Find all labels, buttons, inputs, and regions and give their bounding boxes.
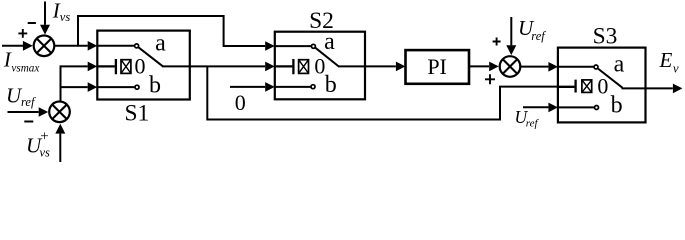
svg-text:S2: S2	[309, 8, 334, 34]
wire sum3 output to S3 input a	[520, 62, 558, 72]
S2 internal contact a line and dot	[275, 44, 316, 48]
label 0 constant	[235, 90, 246, 115]
S3 internal contact b line and dot	[558, 106, 599, 110]
summing junction U2 (U_vs+ - U_ref)	[49, 102, 70, 123]
svg-text:vs: vs	[40, 145, 51, 159]
label U_ref at sum2	[6, 83, 36, 108]
S2 crossed-square symbol	[299, 60, 309, 74]
S3 block label	[593, 24, 618, 50]
S1 internal contact a line and dot	[97, 44, 138, 48]
plus sign for PI input at sum3	[485, 74, 495, 84]
wire E_v output	[646, 84, 683, 94]
switch block S3 box	[558, 48, 646, 123]
S3 middle input line with blocking bar	[558, 80, 576, 93]
svg-text:0: 0	[135, 53, 146, 78]
plus sign for I_vsmax input	[18, 29, 27, 38]
svg-text:0: 0	[235, 90, 246, 115]
wire branch from riser to S1 input b	[61, 82, 98, 92]
svg-text:PI: PI	[427, 54, 447, 79]
svg-text:v: v	[673, 61, 679, 75]
S3 label a	[614, 51, 625, 77]
S3 label b	[611, 92, 623, 118]
S1 crossed-square symbol	[121, 60, 131, 74]
S3 crossed-square symbol	[582, 80, 592, 93]
S2 label a	[324, 29, 335, 55]
svg-text:b: b	[611, 92, 623, 118]
summing junction U3 (PI + U_ref)	[500, 56, 521, 77]
svg-text:ref: ref	[21, 95, 36, 109]
label U_vs+	[26, 129, 50, 160]
S2 label 0	[314, 53, 325, 78]
S3 switch arm from a to common output	[598, 69, 646, 89]
minus sign for I_vs input	[28, 22, 36, 24]
svg-text:E: E	[659, 48, 673, 72]
wire U_ref into S3 input b	[523, 103, 558, 113]
summing junction U1 (I_vsmax - I_vs)	[34, 36, 55, 57]
wire S2 output to PI controller	[365, 62, 405, 72]
wire branch down from S1 output to long bottom feedback wire to S3 middle input	[207, 66, 558, 119]
S3 internal contact a line and dot	[558, 65, 598, 69]
minus sign for U_ref input at sum2	[24, 121, 33, 123]
wire U_ref input vertical into summing junction 3	[506, 17, 516, 55]
wire U_vs+ input vertical arrow up into summing junction 2	[55, 124, 65, 162]
svg-text:a: a	[614, 51, 625, 77]
wire sum2 output riser to S1 middle input	[61, 62, 98, 102]
S1 middle input line with blocking bar	[97, 59, 116, 74]
plus sign for U_ref input at sum3	[493, 38, 501, 46]
label I_vsmax	[3, 48, 39, 75]
label I_vs	[52, 0, 71, 24]
svg-text:vs: vs	[60, 10, 71, 24]
svg-text:ref: ref	[531, 29, 546, 43]
S2 switch arm from a to common output	[315, 48, 365, 67]
switch block S1 box	[97, 31, 190, 100]
svg-text:vsmax: vsmax	[11, 63, 39, 75]
wire S1 output to S2 middle input	[190, 62, 275, 72]
S1 switch arm from a to common output	[139, 47, 190, 66]
PI controller block	[406, 50, 470, 84]
svg-text:b: b	[325, 72, 337, 98]
S2 block label	[309, 8, 334, 34]
svg-text:a: a	[155, 30, 166, 56]
svg-text:S3: S3	[593, 24, 618, 50]
svg-text:S1: S1	[124, 101, 149, 127]
wire I_vs input vertical into summing junction 1	[40, 2, 50, 35]
S2 internal contact b line and dot	[275, 85, 315, 89]
S2 label b	[325, 72, 337, 98]
wire 0 constant into S2 input b	[230, 82, 275, 92]
S1 label a	[155, 30, 166, 56]
wire sum1 output to S1 input a	[54, 41, 97, 51]
wire U_ref input into summing junction 2	[8, 107, 49, 117]
svg-text:0: 0	[314, 53, 325, 78]
svg-text:b: b	[149, 73, 161, 99]
label U_ref at S3 input b	[515, 107, 540, 130]
S1 internal contact b line and dot	[97, 85, 139, 89]
wire I_vsmax input horizontal into summing junction 1	[2, 41, 33, 51]
wire sum1 output branch over the top to S2 input a	[78, 16, 275, 51]
label U_ref at sum3	[518, 16, 546, 43]
wire PI output to summing junction 3	[469, 62, 499, 72]
svg-text:0: 0	[597, 74, 608, 99]
S1 block label	[124, 101, 149, 127]
switch block S2 box	[275, 32, 365, 100]
label E_v	[659, 48, 680, 75]
svg-text:+: +	[40, 129, 48, 145]
S2 middle input line with blocking bar	[275, 59, 294, 74]
svg-text:ref: ref	[526, 118, 540, 130]
S3 label 0	[597, 74, 608, 99]
S1 label 0	[135, 53, 146, 78]
S1 label b	[149, 73, 161, 99]
